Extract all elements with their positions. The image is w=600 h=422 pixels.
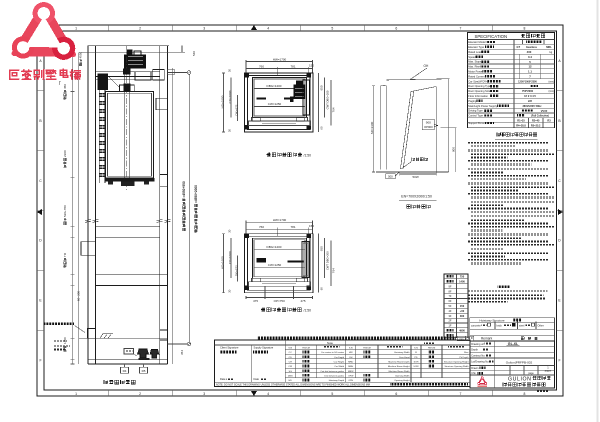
svg-text:Driving Type: Driving Type [468,109,483,113]
svg-text:475: 475 [253,299,258,303]
svg-text:1: 1 [75,26,77,30]
svg-text:HD=1600: HD=1600 [221,256,225,269]
svg-text:Hoistway Structure: Hoistway Structure [479,318,505,322]
plan view (top): cwt rails [303,80,310,115]
plan view (top): door sill assembly [252,118,308,122]
svg-text:750: 750 [460,275,465,279]
svg-text:Pit Depth: Pit Depth [460,356,470,359]
svg-text:450: 450 [63,84,67,89]
svg-text:Gulion(PRFPB-002: Gulion(PRFPB-002 [506,360,533,364]
svg-text:764: 764 [332,107,336,112]
drawing frame outer border [37,25,563,396]
svg-text:2: 2 [139,392,141,396]
svg-text:900: 900 [451,147,455,152]
svg-text:1400: 1400 [63,337,67,344]
svg-text:Elevator Model: Elevator Model [468,40,486,44]
svg-text:MRD: MRD [348,361,353,363]
bottom table: signature cells [251,345,253,382]
svg-text:6F: 6F [448,299,451,303]
svg-text:Structure Opening Height: Structure Opening Height [444,360,469,363]
plan view (standard): door sill assembly [252,278,308,282]
svg-text:VVVF: VVVF [541,110,548,113]
notes sub-title [498,285,510,288]
unit mm box [457,336,473,341]
svg-text:DBG=1200: DBG=1200 [267,84,282,88]
svg-text:Other: Other [538,324,544,327]
svg-text:5: 5 [331,392,333,396]
svg-text:Main/Light Power Supply: Main/Light Power Supply [468,104,497,108]
spec table: row lines [468,43,555,45]
svg-text:760: 760 [259,225,264,229]
floor table [444,274,468,338]
svg-text:900: 900 [426,121,431,125]
landing door header box (right wall, top floor) [156,98,168,110]
ground floor sill line [79,337,168,339]
svg-text:=4550+550: =4550+550 [182,181,186,197]
svg-text:3: 3 [203,26,205,30]
notes title [497,133,537,137]
svg-text:Date: Date [220,377,226,381]
svg-text:Hoistway Depth: Hoistway Depth [329,379,345,382]
plan view (top): CW dim [254,106,305,108]
svg-text:Cwt dist between guides: Cwt dist between guides [320,370,345,373]
svg-text:1400: 1400 [459,280,465,284]
plan view (standard): CW dim [254,266,305,268]
svg-text:2: 2 [139,26,141,30]
svg-text:Note: Note [327,341,333,345]
counterweight guide rail w/ brackets (left) [98,84,100,183]
plan view (standard): corner rail brackets [244,234,248,238]
svg-text:1250*1000*2300: 1250*1000*2300 [518,80,537,83]
plan view (standard): car [253,238,307,278]
plan view (standard): left dims [223,234,225,293]
door elevation: bottom dim 50W [400,173,437,175]
pit waterproof note + leader [43,322,74,325]
plan view (top): machine top view [294,85,306,100]
svg-text:8: 8 [524,392,526,396]
plan view (top): rail bar right [284,98,293,100]
caption: standard floor plan [261,308,301,312]
svg-text:Machine Room Width: Machine Room Width [389,370,411,373]
svg-text:150: 150 [309,64,314,68]
svg-text:475: 475 [300,299,305,303]
svg-text:(mm): (mm) [549,90,555,93]
tiny note texts bottom-left [54,341,67,343]
rotated dim text: travel height [182,181,186,231]
drawing frame inner border [44,31,557,390]
svg-text:Drawing url: Drawing url [471,343,484,346]
svg-text:/1:50: /1:50 [304,154,312,158]
empty row [470,329,555,335]
car floor [105,178,155,182]
left extension lines [72,52,74,364]
svg-text:760: 760 [259,64,264,68]
svg-text:EN=700X2000/1:50: EN=700X2000/1:50 [401,194,432,198]
bottom table: NOTE row [215,381,471,383]
bottom table: data columns [294,345,296,378]
svg-text:Door Opening Type: Door Opening Type [468,84,491,88]
svg-text:Chk: Chk [471,372,476,375]
svg-text:=4550+2000: =4550+2000 [194,185,198,203]
svg-text:30: 30 [228,69,232,73]
caption: top floor plan [267,153,302,157]
watermark logo: red company name [10,69,81,79]
svg-text:Client Signature: Client Signature [220,345,239,349]
svg-text:OPH: OPH [348,380,353,382]
svg-text:Contract No.: Contract No. [471,354,485,357]
svg-text:354: 354 [180,350,184,355]
svg-text:GL-6L: GL-6L [508,342,519,346]
svg-text:8: 8 [524,26,526,30]
svg-text:Car Width: Car Width [334,365,345,368]
buffer labels R4 R5 [121,367,129,373]
car guide rail / sling column [123,69,125,178]
svg-text:S.N: S.N [414,348,418,350]
svg-text:CD=1000: CD=1000 [228,90,232,103]
door elevation: outer right edge [448,79,450,172]
svg-text:Rated Load: Rated Load [468,50,482,54]
svg-text:650: 650 [320,85,324,90]
buffer label box [124,349,134,355]
level datum bottom [168,343,188,345]
plan view (top): corner rail brackets [244,73,248,77]
svg-text:650: 650 [320,246,324,251]
svg-text:4900: 4900 [459,329,465,333]
svg-text:CWT DBG=200: CWT DBG=200 [326,90,330,109]
section view: hoistway right wall [159,46,161,364]
plan view (standard): outer dim HW=1700 [246,221,313,223]
bold note line above bottom table [257,337,456,340]
svg-text:S.N: S.N [349,348,353,350]
svg-text:SG: SG [289,371,292,373]
svg-text:5F: 5F [448,304,451,308]
svg-text:Date: Date [254,377,260,381]
svg-text:Car Size(W*D*H): Car Size(W*D*H) [468,79,488,83]
svg-text:60: 60 [320,126,324,130]
svg-text:60: 60 [320,287,324,291]
svg-text:540: 540 [192,51,196,56]
svg-text:HW=1700: HW=1700 [273,57,287,61]
watermark logo: corner discs [33,2,55,24]
mini gulion logo [478,378,486,384]
svg-text:R4: R4 [123,369,127,373]
page right edge shadow [597,0,599,422]
svg-text:concrete: concrete [471,324,481,327]
svg-text:HD=1600: HD=1600 [221,95,225,108]
svg-text:R1=25: R1=25 [517,120,525,123]
notes body lines [468,142,549,144]
svg-text:Structure Opening Width: Structure Opening Width [445,365,470,368]
hoistway structure row [470,318,555,323]
plan view (std): bottom dim 475/OP=750/475 [246,297,313,299]
spec table: column divider [513,40,515,128]
svg-text:4: 4 [267,392,269,396]
svg-text:750*2000: 750*2000 [522,89,534,93]
machine support beams [96,71,161,73]
top-left overhead dim text (rotated) [79,51,83,65]
svg-text:CH: CH [289,361,293,363]
svg-text:3F: 3F [448,314,451,318]
svg-text:brick: brick [497,324,503,327]
svg-text:781: 781 [290,225,295,229]
landing door header box (right wall, lower floor) [160,175,168,187]
svg-text:30: 30 [228,289,232,293]
watermark logo: inner white triangle [29,21,58,46]
title block: chk row [470,370,538,372]
svg-text:PD: PD [414,357,417,359]
small dim 354 bottom right [180,350,184,355]
spec table: values [526,41,542,43]
spec table: support force cells [528,118,530,128]
door elevation: left dim SD [373,86,375,172]
svg-text:HD: HD [289,380,293,382]
right wall box at pit [160,330,168,340]
svg-text:NOTE: DO NOT SCALE THIS DRAWIN: NOTE: DO NOT SCALE THIS DRAWING UNLESS O… [216,383,370,386]
left wall niche box [81,242,96,255]
svg-text:50W: 50W [413,175,419,179]
date stamp [536,390,549,392]
svg-text:OH: OH [424,64,429,68]
svg-text:Over Head: Over Head [399,356,410,359]
svg-text:OP=750: OP=750 [274,299,285,303]
svg-text:GT: GT [516,45,520,49]
svg-text:(mm): (mm) [549,80,555,83]
svg-text:1F 2 3 4 5: 1F 2 3 4 5 [524,94,536,98]
svg-text:Machine Room Depth: Machine Room Depth [388,360,410,363]
svg-text:Lot/Drawing No.: Lot/Drawing No. [471,361,489,364]
plan view (top): left dims [223,73,225,132]
dim 540 top right [181,46,183,53]
wall break marks [85,220,91,221]
svg-text:4550: 4550 [79,51,83,58]
svg-text:3: 3 [203,392,205,396]
svg-text:Floor Information: Floor Information [468,94,488,98]
door elevation: bottom edge [376,171,449,173]
car crosshead [120,85,135,92]
svg-text:2F: 2F [448,319,451,323]
svg-text:Control Type: Control Type [468,114,483,118]
svg-text:CW=1250: CW=1250 [268,102,282,106]
svg-text:pages: pages [545,370,552,373]
svg-text:12: 12 [528,65,532,69]
svg-text:Car Depth: Car Depth [334,356,345,359]
drawing title (outline hanzi) [503,382,545,386]
machine (gearless hoist) [124,55,146,69]
svg-text:Remark: Remark [481,337,493,341]
rotated dim text: total height [194,185,198,233]
svg-text:781: 781 [290,64,295,68]
title block: logo cell [493,375,495,388]
plan view (standard): dim row 760/781/150 [246,228,313,230]
svg-text:8F: 8F [448,289,451,293]
svg-text:7F: 7F [448,294,451,298]
svg-text:150: 150 [309,224,314,228]
plan view (top): DBG dim [254,88,305,90]
svg-text:OH: OH [349,357,353,359]
svg-text:R5: R5 [142,369,146,373]
left dim texts (rotated) [63,84,67,100]
svg-text:30: 30 [228,129,232,133]
svg-text:Max. Rise: Max. Rise [468,65,480,69]
plan view (standard): right dims [318,234,320,293]
door elevation: door panel (tilted) [401,92,412,169]
svg-text:Opening Width: Opening Width [395,374,410,377]
svg-text:GULION: GULION [508,376,532,382]
svg-text:Paging: Paging [468,99,477,103]
plan view (top): dim row 760/781/150 [246,68,313,70]
svg-text:4F: 4F [448,309,451,313]
plan view (std): rail bar left lower [257,260,267,262]
door elevation: sill label [386,174,396,179]
svg-text:Drawn: Drawn [471,367,479,370]
svg-text:R4=28.8: R4=28.8 [516,125,526,128]
svg-text:Depth: Depth [471,349,478,352]
left wall box at pit [88,329,96,339]
svg-text:SOW: SOW [413,366,419,368]
svg-text:2300: 2300 [63,150,67,157]
svg-text:50~200: 50~200 [77,291,81,301]
title block [470,341,555,388]
svg-text:S.N: S.N [288,348,292,350]
svg-text:6: 6 [395,392,397,396]
svg-text:Support Force: Support Force [468,121,485,125]
svg-text:Max. Stops: Max. Stops [468,60,482,64]
svg-text:CC: CC [289,352,293,354]
svg-text:Dist between guides: Dist between guides [324,374,345,377]
door elevation: inner right edge [435,87,437,173]
plan view (standard): hoistway walls [245,234,314,293]
svg-text:steel: steel [519,324,525,327]
plan view (standard): DBG dim [254,248,305,250]
svg-text:Supply Signature: Supply Signature [254,345,274,349]
plan view (std): counterweight [302,242,309,278]
door elevation: reinforcement note [412,158,428,161]
level datum top [168,72,188,74]
svg-text:Car Height: Car Height [334,360,345,363]
svg-text:Door Opening Size: Door Opening Size [468,89,490,93]
svg-text:Machine Room Height: Machine Room Height [388,365,410,368]
plan view (top): car [253,78,307,118]
svg-text:150: 150 [460,304,465,308]
plan view (top): outer dim HW=1700 [246,61,313,63]
plan view (std): rail bars right pair [288,260,305,262]
svg-text:9F: 9F [448,284,451,288]
svg-text:400: 400 [527,50,532,54]
svg-text:Motor Power: Motor Power [468,70,483,74]
svg-text:(Full Collective): (Full Collective) [531,115,549,118]
bottom table frame [215,340,471,387]
car buffer [138,349,149,358]
svg-text:5: 5 [331,26,333,30]
door elevation: label box 900/OP900 [422,119,434,129]
svg-text:300: 300 [460,314,465,318]
svg-text:R2=45: R2=45 [532,120,540,123]
svg-text:HG/CM: HG/CM [428,348,435,350]
svg-text:Hoistway Width: Hoistway Width [394,351,410,354]
plan view (top): right dims [318,73,320,132]
plan view (top): guide rail (left) [257,98,267,100]
svg-text:4: 4 [267,26,269,30]
svg-text:F: F [558,358,560,362]
svg-text:30: 30 [228,229,232,233]
svg-text:Opening Height: Opening Height [394,379,410,382]
gulion watermark logo: triangle band [14,5,74,55]
svg-text:1: 1 [75,392,77,396]
svg-text:Rated Current: Rated Current [468,74,485,78]
pit floor [88,359,168,361]
svg-text:1F: 1F [448,324,451,328]
structure type row [470,322,555,329]
svg-text:Rise: Rise [464,352,469,354]
spec table: header [468,39,555,41]
svg-text:CD=1000: CD=1000 [228,251,232,264]
svg-text:CD: CD [289,357,293,359]
svg-text:F: F [39,358,41,362]
bottom table: note header row [285,344,470,346]
svg-text:HG/CM: HG/CM [363,348,370,350]
centering arrow marks [251,25,257,30]
svg-text:DBG: DBG [288,375,293,377]
watermark logo: punched holes [38,7,50,19]
svg-text:7: 7 [459,26,461,30]
svg-text:HG/CM: HG/CM [302,348,309,350]
spec table: frame [468,33,555,128]
floor slab (upper landing) [96,226,160,237]
svg-text:/1:50: /1:50 [304,309,312,313]
car cabin [106,92,154,178]
svg-text:DK=672: DK=672 [235,104,239,115]
svg-text:500: 500 [388,175,393,179]
svg-text:CW=1250: CW=1250 [268,263,282,267]
svg-text:0.4: 0.4 [528,55,532,59]
svg-text:7: 7 [459,392,461,396]
safety gear under car [121,181,134,186]
floor slab (lower landing) [96,274,160,285]
right extension line [172,68,174,364]
svg-text:380V/220V 50Hz: 380V/220V 50Hz [523,105,543,108]
svg-text:OPW: OPW [348,375,354,377]
svg-text:764: 764 [332,268,336,273]
section view: top level line [79,51,185,53]
svg-text:SOH: SOH [414,361,419,363]
door elevation: wall jamb [379,86,381,170]
svg-text:2/2: 2/2 [528,99,532,103]
door elevation: top edge [387,79,450,80]
plan view (standard): guide rail (left) [257,258,267,260]
caption: hoistway section [104,380,135,384]
svg-text:DBG=1200: DBG=1200 [267,245,282,249]
svg-text:DK=672: DK=672 [235,265,239,276]
ground level mark [100,333,113,338]
svg-text:6: 6 [395,26,397,30]
svg-text:Elevator Type: Elevator Type [468,45,484,49]
svg-text:MRL: MRL [546,45,552,49]
section view: shaft roof [88,45,169,47]
svg-text:page: page [528,372,534,375]
svg-text:MRH: MRH [348,366,353,368]
svg-text:520+780: 520+780 [63,205,67,217]
svg-text:MRW: MRW [348,371,354,373]
plan view (top): hoistway walls [245,73,314,132]
svg-text:SPECIFICATION: SPECIFICATION [474,34,507,39]
section view: hoistway left wall [87,46,89,364]
door elevation: right dim 900 [441,127,457,129]
svg-text:+00: +00 [460,309,465,313]
svg-text:1.1: 1.1 [528,70,532,74]
svg-text:HW=1700: HW=1700 [273,218,287,222]
svg-text:Gearless: Gearless [526,45,538,49]
svg-text:CWT DBG=200: CWT DBG=200 [326,251,330,270]
